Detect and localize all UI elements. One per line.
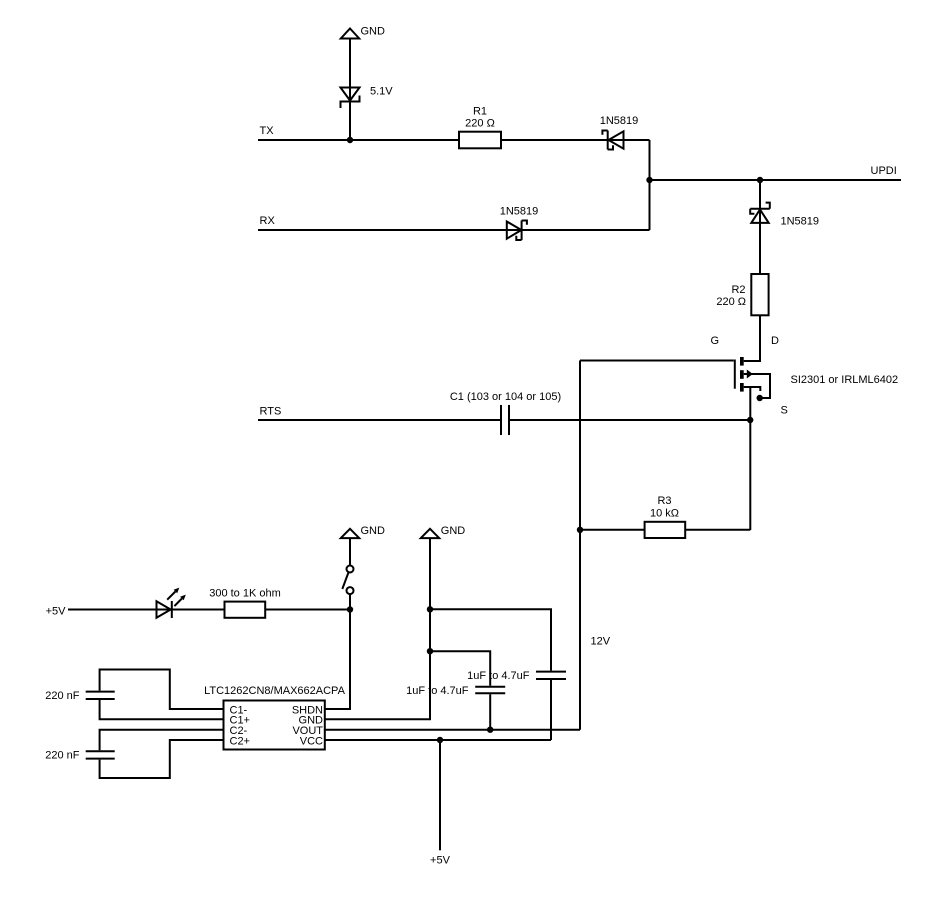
wire UPDI junction down to D4: [759, 180, 761, 274]
svg-text:R2: R2: [731, 284, 745, 296]
wire TX: [258, 139, 459, 141]
node VCC +5V junction: [437, 737, 443, 743]
svg-text:G: G: [711, 335, 720, 347]
node body-source dot: [757, 395, 763, 401]
svg-text:1N5819: 1N5819: [600, 115, 639, 127]
ground GND3: [421, 529, 439, 538]
resistor R1: [459, 132, 501, 149]
Q1 channel bars: [740, 357, 744, 366]
wire +5V to LED: [68, 609, 225, 611]
switch SW1: [347, 566, 354, 573]
svg-text:RX: RX: [260, 215, 276, 227]
wire R4 to switch junction: [265, 609, 350, 611]
wire C4 bottom to C1+: [100, 700, 224, 719]
wire R2 to drain: [744, 315, 760, 361]
diode D4 1N5819 (vertical): [750, 208, 770, 210]
ground GND2 (switch): [341, 529, 359, 538]
node switch junction: [347, 606, 353, 612]
svg-text:D: D: [771, 335, 779, 347]
svg-text:+5V: +5V: [430, 855, 451, 867]
wire VCC: [325, 739, 551, 741]
wire C4 top to C1-: [100, 670, 224, 710]
svg-text:SI2301 or IRLML6402: SI2301 or IRLML6402: [791, 374, 899, 386]
svg-text:R1: R1: [473, 106, 487, 118]
wire GND1 to zener: [349, 39, 351, 141]
svg-text:C1 (103 or 104 or 105): C1 (103 or 104 or 105): [450, 391, 561, 403]
wire 12V vertical: [579, 361, 581, 730]
wire VOUT to 12V: [325, 729, 580, 731]
wire SHDN: [325, 610, 350, 710]
node UPDI junction: [646, 177, 652, 183]
zener diode 5.1V: [341, 88, 360, 101]
svg-text:1uF to 4.7uF: 1uF to 4.7uF: [406, 685, 469, 697]
Q1 body wire and arrow: [744, 374, 770, 398]
node GND branch 2: [427, 648, 433, 654]
wire RTS: [258, 419, 500, 421]
wire C3 bottom to VCC: [550, 680, 552, 740]
svg-text:GND: GND: [361, 525, 386, 537]
node R3 junction: [577, 527, 583, 533]
wire D1 to corner: [649, 140, 651, 230]
svg-text:300 to 1K ohm: 300 to 1K ohm: [209, 588, 281, 600]
node C2-VOUT junction: [487, 727, 493, 733]
svg-text:GND: GND: [441, 525, 466, 537]
Q1 source wire: [744, 387, 761, 391]
resistor R3: [645, 522, 686, 538]
svg-text:220 nF: 220 nF: [45, 750, 80, 762]
svg-text:5.1V: 5.1V: [370, 86, 393, 98]
node D4 branch junction: [757, 177, 763, 183]
svg-text:12V: 12V: [591, 636, 611, 648]
svg-text:C2+: C2+: [230, 735, 251, 747]
Q1 gate bar: [734, 360, 736, 389]
wire R3 to source net: [685, 529, 750, 531]
node TX-zener junction: [347, 137, 353, 143]
svg-text:TX: TX: [260, 125, 275, 137]
wire +5V drop: [439, 740, 441, 850]
wire gate: [580, 360, 734, 362]
svg-text:10 kΩ: 10 kΩ: [650, 507, 679, 519]
wire GND3 down to GND pin: [325, 538, 430, 719]
svg-text:GND: GND: [361, 26, 386, 38]
svg-text:+5V: +5V: [46, 606, 67, 618]
resistor R2: [751, 274, 768, 315]
svg-text:R3: R3: [657, 495, 671, 507]
LED D5: [157, 601, 171, 618]
node GND branch 1: [427, 606, 433, 612]
svg-text:S: S: [781, 405, 788, 417]
wire GND to C2 top: [430, 651, 490, 686]
svg-text:1N5819: 1N5819: [781, 216, 820, 228]
wire UPDI: [650, 179, 902, 181]
svg-text:220 Ω: 220 Ω: [716, 296, 746, 308]
wire C1 to source net: [509, 419, 750, 421]
svg-text:220 Ω: 220 Ω: [465, 118, 495, 130]
wire GND to C3 top: [430, 609, 551, 670]
svg-text:1N5819: 1N5819: [500, 206, 539, 218]
wire C5 top to C2-: [100, 730, 224, 751]
svg-text:LTC1262CN8/MAX662ACPA: LTC1262CN8/MAX662ACPA: [204, 685, 345, 697]
wire C5 bottom to C2+: [100, 740, 224, 778]
svg-text:1uF to 4.7uF: 1uF to 4.7uF: [467, 670, 530, 682]
svg-text:UPDI: UPDI: [871, 165, 897, 177]
wire to R3: [580, 529, 645, 531]
wire C2 bottom to VOUT: [489, 694, 491, 730]
wire source down to R3: [749, 387, 751, 530]
ground GND1 (top): [341, 29, 359, 39]
svg-text:RTS: RTS: [260, 406, 282, 418]
wire GND2 to switch: [349, 538, 351, 565]
wire RX: [258, 229, 650, 231]
svg-text:VCC: VCC: [300, 735, 323, 747]
wire R1 to D1: [501, 139, 650, 141]
node RTS-source junction: [747, 417, 753, 423]
svg-text:220 nF: 220 nF: [45, 690, 80, 702]
